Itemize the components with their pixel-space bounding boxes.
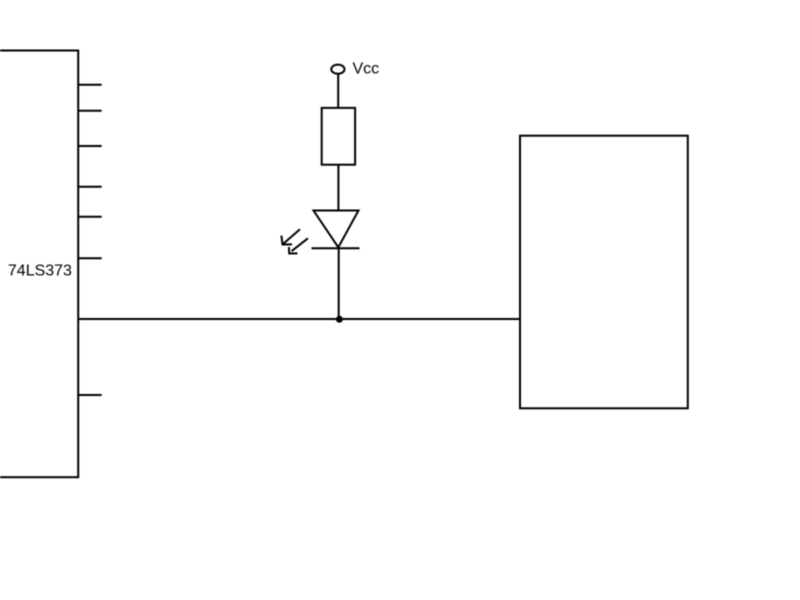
module box (right block) xyxy=(520,136,688,409)
pin stub 7 of U1 (output pin on net) xyxy=(78,394,102,396)
pin stub 6 of U1 xyxy=(78,257,102,259)
LED D1 light arrow 2 head xyxy=(289,247,298,254)
pin stub 1 of U1 xyxy=(78,84,102,86)
wire resistor R1 bottom to LED D1 anode xyxy=(337,165,339,211)
svg-text:74LS373: 74LS373 xyxy=(8,262,72,279)
LED D1 light arrow 1 shaft xyxy=(283,229,300,243)
wire horizontal net from U1 pin to right module xyxy=(78,318,520,320)
LED D1 cathode bar xyxy=(312,247,360,249)
wire LED D1 cathode to junction node xyxy=(338,248,340,319)
pin stub 4 of U1 xyxy=(78,186,102,188)
pin stub 2 of U1 xyxy=(78,110,102,112)
pin stub 3 of U1 xyxy=(78,145,102,147)
LED D1 light arrow 2 shaft xyxy=(292,238,308,251)
wire Vcc terminal to resistor R1 top xyxy=(337,74,339,108)
power symbol Vcc (circle terminal) xyxy=(331,65,344,74)
junction dot at wire node xyxy=(336,316,343,323)
pin stub 5 of U1 xyxy=(78,216,102,218)
IC U1 74LS373 body xyxy=(0,51,78,478)
resistor R1 body xyxy=(322,108,355,165)
LED D1 light arrow 1 head xyxy=(281,236,292,245)
LED D1 triangle (anode) xyxy=(314,211,359,248)
svg-text:Vcc: Vcc xyxy=(353,61,380,78)
